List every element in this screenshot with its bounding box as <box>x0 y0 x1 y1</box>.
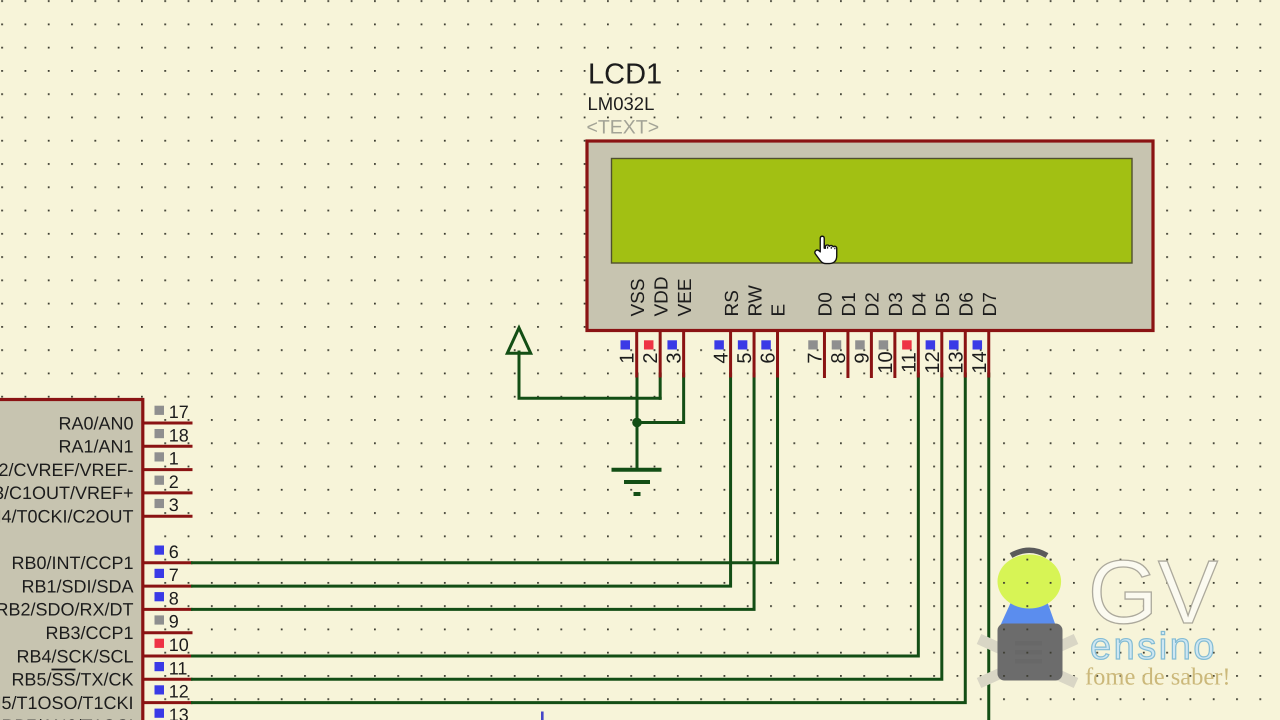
svg-text:8: 8 <box>828 352 850 363</box>
wire ground node down to ground symbol <box>636 423 639 470</box>
LCD display LCD1 (LM032L) body <box>587 141 1153 331</box>
wire net RS: LCD1 pin4 to U1 RB1 (pin-7 row) <box>193 374 731 586</box>
wire net D7: LCD1 pin14 down (to U1 RB7, off-screen) <box>987 374 990 720</box>
svg-text:RB3/CCP1: RB3/CCP1 <box>45 623 133 643</box>
svg-text:LM032L: LM032L <box>588 93 655 114</box>
svg-text:RB0/INT/CCP1: RB0/INT/CCP1 <box>11 553 133 573</box>
svg-text:D0: D0 <box>816 292 837 316</box>
LCD1 pin 11 (D4) <box>898 292 930 378</box>
svg-text:2: 2 <box>640 352 662 363</box>
U1 pin 6 (RB0/INT/CCP1) <box>11 542 192 573</box>
svg-text:D6: D6 <box>956 292 977 316</box>
svg-text:12: 12 <box>169 682 189 702</box>
U1 pin 8 (RB2/SDO/RX/DT) <box>0 588 193 619</box>
power symbol: VDD up-arrow <box>507 328 530 353</box>
wire VDD: LCD1 pin2 down to power rail <box>659 374 662 398</box>
svg-text:18: 18 <box>169 425 189 445</box>
wire net D4: LCD1 pin11 to U1 RB4 (pin-10 row) <box>193 374 919 656</box>
U1 pin 17 (RA0/AN0) <box>58 402 192 433</box>
svg-text:13: 13 <box>169 705 189 720</box>
junction node VSS/VEE/GND <box>632 418 642 428</box>
svg-text:RA3/AN3/C1OUT/VREF+: RA3/AN3/C1OUT/VREF+ <box>0 483 134 503</box>
LCD1 pin 10 (D3) <box>875 292 907 378</box>
svg-text:8: 8 <box>169 588 179 608</box>
svg-text:7: 7 <box>169 565 179 585</box>
wire net D6: LCD1 pin13 to U1 RB6 (pin-12 row) <box>193 374 966 703</box>
svg-text:14: 14 <box>969 351 991 373</box>
LCD1 pin 3 (VEE) <box>664 278 696 377</box>
watermark X glyph <box>979 639 1076 683</box>
LCD1 pin 5 (RW) <box>734 285 766 377</box>
svg-text:9: 9 <box>851 352 873 363</box>
svg-text:RS: RS <box>722 290 743 316</box>
IC U1 PIC16F88 body (partially off-screen left/bottom) <box>0 400 143 720</box>
watermark person icon: head <box>998 555 1062 609</box>
U1 pin 1 (RA2/AN2/CVREF/VREF-) <box>0 449 193 480</box>
LCD1 pin 1 (VSS) <box>617 278 649 377</box>
svg-text:RA4/AN4/T0CKI/C2OUT: RA4/AN4/T0CKI/C2OUT <box>0 507 134 527</box>
watermark person icon: laptop/desk <box>998 624 1063 681</box>
wire net RW: LCD1 pin5 to U1 RB2 (pin-8 row) <box>193 374 755 609</box>
svg-text:4: 4 <box>711 352 733 363</box>
svg-text:6: 6 <box>169 542 179 562</box>
svg-text:7: 7 <box>804 352 826 363</box>
svg-text:D5: D5 <box>933 292 954 316</box>
svg-text:LCD1: LCD1 <box>588 59 662 91</box>
svg-text:RW: RW <box>745 285 766 316</box>
LCD1 pin 4 (RS) <box>711 290 743 377</box>
svg-text:RA2/AN2/CVREF/VREF-: RA2/AN2/CVREF/VREF- <box>0 460 134 480</box>
svg-text:6: 6 <box>758 352 780 363</box>
LCD1 green screen <box>612 159 1133 264</box>
svg-text:10: 10 <box>875 351 897 373</box>
svg-text:VEE: VEE <box>675 278 696 316</box>
wire net D5: LCD1 pin12 to U1 RB5 (pin-11 row) <box>193 374 942 679</box>
svg-text:D1: D1 <box>839 292 860 316</box>
svg-text:<TEXT>: <TEXT> <box>587 117 660 139</box>
U1 pin 11 (RB5/SS/TX/CK) <box>11 658 192 689</box>
U1 pin 18 (RA1/AN1) <box>58 425 192 456</box>
U1 pin 3 (RA4/AN4/T0CKI/C2OUT) <box>0 495 193 526</box>
svg-text:11: 11 <box>169 658 188 678</box>
svg-text:RB1/SDI/SDA: RB1/SDI/SDA <box>21 576 133 596</box>
svg-text:9: 9 <box>169 612 179 632</box>
svg-text:ensino: ensino <box>1090 626 1217 668</box>
svg-text:3: 3 <box>169 495 179 515</box>
bus stub at bottom edge <box>541 712 544 720</box>
svg-text:RB6/AN5/T1OSO/T1CKI: RB6/AN5/T1OSO/T1CKI <box>0 693 134 713</box>
svg-text:fome de saber!: fome de saber! <box>1085 664 1231 691</box>
svg-text:10: 10 <box>169 635 189 655</box>
grid dots over watermark icon <box>992 540 1067 685</box>
svg-text:E: E <box>769 304 790 317</box>
U1 pin 2 (RA3/AN3/C1OUT/VREF+) <box>0 472 193 503</box>
svg-text:2: 2 <box>169 472 179 492</box>
svg-text:RA0/AN0: RA0/AN0 <box>58 413 133 433</box>
LCD1 pin 6 (E) <box>758 304 790 378</box>
svg-text:RA1/AN1: RA1/AN1 <box>58 437 133 457</box>
svg-text:11: 11 <box>898 352 920 373</box>
svg-text:D7: D7 <box>980 292 1001 316</box>
LCD1 pin 2 (VDD) <box>640 276 672 377</box>
svg-text:VDD: VDD <box>651 276 672 316</box>
svg-text:D3: D3 <box>886 292 907 316</box>
svg-text:13: 13 <box>945 351 967 373</box>
svg-text:3: 3 <box>664 352 686 363</box>
svg-text:RB7/AN6/T1OSI: RB7/AN6/T1OSI <box>1 716 133 720</box>
U1 pin 10 (RB4/SCK/SCL) <box>16 635 192 666</box>
svg-text:12: 12 <box>922 351 944 373</box>
LCD1 pin 13 (D6) <box>945 292 977 377</box>
svg-text:RB5/SS/TX/CK: RB5/SS/TX/CK <box>11 670 133 690</box>
ground symbol <box>612 470 662 494</box>
svg-text:5: 5 <box>734 352 756 363</box>
watermark person icon: hair <box>1011 550 1047 555</box>
svg-text:D2: D2 <box>863 292 884 316</box>
svg-text:D4: D4 <box>910 292 931 317</box>
svg-text:1: 1 <box>169 449 179 469</box>
svg-text:17: 17 <box>169 402 189 422</box>
mouse hand cursor <box>815 236 837 263</box>
LCD1 pin 7 (D0) <box>804 292 836 378</box>
wire power rail: VDD arrow to LCD1 pin2 <box>519 352 660 398</box>
U1 pin 12 (RB6/AN5/T1OSO/T1CKI) <box>0 682 193 713</box>
wire VSS: LCD1 pin1 down to ground node <box>636 374 639 423</box>
U1 pin 9 (RB3/CCP1) <box>45 612 192 643</box>
LCD1 pin 9 (D2) <box>851 292 883 378</box>
svg-text:1: 1 <box>617 352 639 363</box>
LCD1 pin 8 (D1) <box>828 292 860 378</box>
wire VEE: LCD1 pin3 down and left to ground node <box>637 374 684 423</box>
wire net E: LCD1 pin6 to U1 RB0 (pin-6 row) <box>193 374 778 563</box>
LCD1 pin 12 (D5) <box>922 292 954 377</box>
svg-text:RB2/SDO/RX/DT: RB2/SDO/RX/DT <box>0 600 134 620</box>
U1 pin 7 (RB1/SDI/SDA) <box>21 565 192 596</box>
LCD1 pin 14 (D7) <box>969 292 1001 377</box>
svg-text:RB4/SCK/SCL: RB4/SCK/SCL <box>16 646 133 666</box>
svg-text:VSS: VSS <box>628 278 649 316</box>
watermark person icon: shirt <box>1001 601 1056 625</box>
U1 pin 13 (RB7/AN6/T1OSI) <box>1 705 192 720</box>
